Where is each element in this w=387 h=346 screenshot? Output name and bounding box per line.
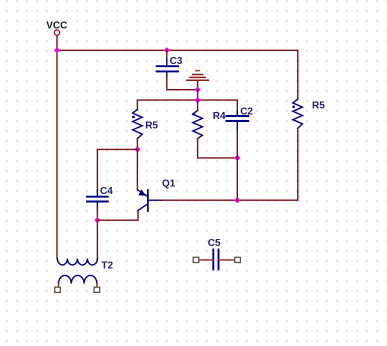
resistor R4 [192, 100, 226, 138]
junction ground / C3 [194, 87, 200, 93]
junction R5 bottom [134, 146, 140, 152]
svg-text:Q1: Q1 [162, 178, 176, 189]
ground [187, 71, 209, 90]
pad T2 left [55, 287, 61, 292]
wire Q1 base to right rail [163, 199, 298, 201]
wire junction down to T2 [96, 220, 98, 258]
wire right rail top [297, 50, 299, 99]
capacitor C4 [87, 186, 113, 208]
wire R5 left bottom lead [136, 139, 138, 150]
capacitor C3 [157, 50, 183, 78]
junction R4 / C2 [234, 155, 240, 161]
svg-text:T2: T2 [101, 261, 113, 272]
transistor Q1 [138, 178, 176, 211]
junction top bus / C3 [164, 47, 170, 53]
wire top bus [57, 49, 298, 51]
svg-text:C4: C4 [100, 186, 113, 197]
svg-text:C2: C2 [240, 106, 253, 117]
svg-text:R4: R4 [213, 111, 226, 122]
wire C4 bottom to junction [96, 208, 98, 220]
wire R4 bottom to junction D [198, 139, 238, 158]
junction base wire / R4-C2 [234, 197, 240, 203]
wire junction to Q1 collector [97, 210, 138, 220]
svg-text:C5: C5 [208, 238, 221, 249]
wire junction to C4 [97, 149, 137, 190]
transformer T2 [57, 259, 113, 288]
junction at VCC [54, 47, 60, 53]
wire junction down to Q1 emitter [136, 149, 138, 189]
pad C5 left [193, 257, 199, 262]
wire right rail bottom [297, 128, 299, 200]
power port VCC [46, 21, 67, 36]
resistor R5 (left) [132, 109, 158, 138]
wire left rail [56, 50, 58, 258]
wire mid bus [137, 100, 237, 116]
svg-text:VCC: VCC [46, 21, 67, 32]
svg-text:C3: C3 [170, 56, 183, 67]
junction mid bus / R4 [194, 97, 200, 103]
resistor R5 (right) [292, 99, 325, 128]
wire C2 bottom to junction D [236, 131, 238, 158]
wire VCC stem [56, 36, 58, 51]
wire C3 bottom to ground node [167, 78, 198, 90]
pad C5 right [235, 257, 241, 262]
capacitor C5 [199, 238, 236, 270]
svg-text:R5: R5 [145, 121, 158, 132]
svg-text:R5: R5 [312, 101, 325, 112]
pad T2 right [94, 287, 100, 292]
junction C4 / collector / T2 [94, 217, 100, 223]
wire junction D down to base wire [236, 158, 238, 200]
wire ground node down to mid bus [197, 90, 199, 100]
capacitor C2 [227, 106, 254, 131]
